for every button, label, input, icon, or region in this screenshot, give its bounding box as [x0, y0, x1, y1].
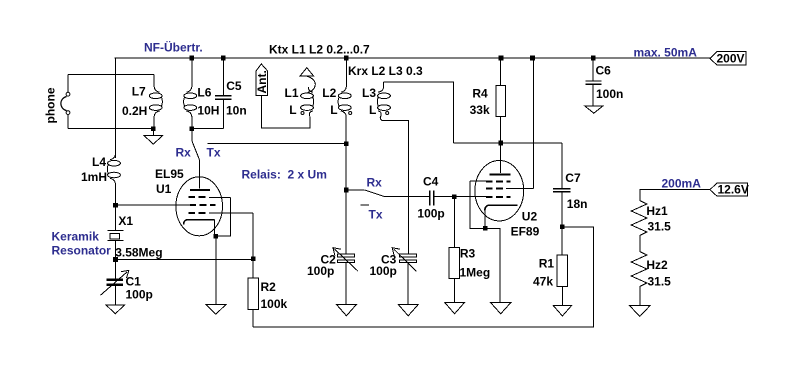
node junction g2 top — [530, 56, 535, 61]
node junction R2 top — [251, 257, 256, 262]
ground under R1 — [553, 306, 571, 317]
wire L3 bottom to C3 — [384, 121, 409, 254]
svg-text:31.5: 31.5 — [648, 274, 672, 288]
svg-text:10H: 10H — [197, 104, 219, 118]
switch relay contact 2 — [346, 190, 429, 205]
node junction L6 bottom — [190, 126, 195, 131]
svg-text:U1: U1 — [156, 182, 172, 196]
node junction L2 top — [344, 56, 349, 61]
svg-text:C4: C4 — [423, 174, 439, 188]
svg-text:200mA: 200mA — [662, 177, 702, 191]
svg-text:EF89: EF89 — [511, 224, 540, 238]
node junction C5 top — [221, 56, 226, 61]
wire Hz2 to ground — [639, 287, 641, 306]
svg-text:L7: L7 — [132, 84, 146, 98]
node junction C6 top — [591, 56, 596, 61]
node junction U2 cathode — [483, 226, 488, 231]
svg-text:L2: L2 — [322, 86, 336, 100]
node junction C7 / R1 — [560, 225, 565, 230]
svg-text:Ktx L1 L2 0.2...0.7: Ktx L1 L2 0.2...0.7 — [269, 43, 370, 57]
svg-text:31.5: 31.5 — [648, 219, 672, 233]
svg-text:1Meg: 1Meg — [460, 265, 491, 279]
wire L3 top to R4 node — [383, 82, 453, 143]
wire U2 cathode lead — [484, 211, 486, 229]
svg-text:L: L — [369, 103, 376, 117]
node junction Tx line meets L2 column — [344, 141, 349, 146]
svg-text:L1: L1 — [285, 86, 299, 100]
svg-text:L6: L6 — [197, 86, 211, 100]
terminal Ant. flag — [255, 64, 269, 96]
terminal 200V tag — [710, 51, 746, 65]
svg-text:10n: 10n — [226, 104, 247, 118]
wire Ant to L1 — [261, 96, 310, 128]
capacitor C4 — [430, 191, 486, 206]
svg-text:U2: U2 — [522, 209, 538, 223]
wire U1 g2 row down to R2 node — [252, 213, 254, 259]
svg-text:0.2H: 0.2H — [122, 104, 147, 118]
svg-text:47k: 47k — [533, 274, 553, 288]
node junction R4 top — [499, 56, 504, 61]
node junction switch2 common — [344, 188, 349, 193]
svg-text:100p: 100p — [307, 264, 334, 278]
svg-text:33k: 33k — [470, 103, 490, 117]
capacitor C1 variable — [101, 259, 129, 304]
wire U2 cathode to ground — [485, 228, 500, 302]
svg-text:NF-Übertr.: NF-Übertr. — [144, 40, 203, 55]
tube U2 EF89 envelope — [475, 161, 524, 221]
crystal X1 ceramic resonator — [108, 205, 124, 259]
ground under U1 cathode — [206, 304, 226, 314]
tube U2 grid row g2 — [486, 187, 533, 189]
svg-text:1mH: 1mH — [81, 170, 107, 184]
wire bottom feedback loop — [253, 227, 594, 327]
svg-text:100n: 100n — [596, 87, 623, 101]
svg-text:Tx: Tx — [207, 145, 221, 159]
wire Hz1 to Hz2 — [639, 236, 641, 252]
svg-text:X1: X1 — [118, 214, 133, 228]
svg-text:Ant.: Ant. — [255, 70, 269, 93]
svg-text:Rx: Rx — [176, 145, 192, 159]
svg-text:L3: L3 — [362, 86, 376, 100]
svg-text:C6: C6 — [596, 63, 612, 77]
wire main B+ rail — [115, 57, 710, 59]
inductor L4 — [107, 154, 120, 205]
svg-text:Krx L2 L3 0.3: Krx L2 L3 0.3 — [348, 64, 423, 78]
wire 12.6V to Hz1 — [640, 190, 710, 201]
ground under R3 — [445, 303, 465, 314]
capacitor C5 — [192, 58, 232, 128]
svg-text:18n: 18n — [567, 197, 588, 211]
tube U2 grid row g3 — [470, 180, 510, 183]
node junction L7 bottom — [151, 126, 156, 131]
svg-text:R1: R1 — [539, 256, 555, 270]
svg-text:phone: phone — [44, 87, 58, 123]
resistor R3 — [449, 197, 460, 303]
svg-text:C7: C7 — [565, 171, 581, 185]
inductor L6 — [184, 58, 197, 129]
svg-text:100p: 100p — [417, 207, 444, 221]
node junction X1 bottom / 3.58Meg line — [113, 257, 118, 262]
inductor L1 — [301, 76, 316, 121]
tube U2 anode — [489, 143, 510, 175]
resistor R2 — [248, 259, 258, 327]
resistor R1 — [557, 227, 568, 306]
svg-text:R3: R3 — [460, 247, 476, 261]
tube U2 cathode — [485, 205, 518, 211]
ground under L7 — [144, 131, 163, 144]
svg-text:Rx: Rx — [367, 175, 383, 189]
svg-text:Resonator: Resonator — [52, 243, 112, 257]
ground under C6 — [585, 106, 604, 113]
capacitor C6 — [586, 58, 602, 106]
inductor L2 — [338, 58, 352, 143]
wire anode node line L3 to C7 — [453, 142, 562, 144]
antenna symbol above L1 — [300, 68, 314, 77]
ground under C1 — [106, 305, 125, 314]
wire U1 cathode to ground — [215, 236, 217, 304]
capacitor C3 variable — [392, 248, 416, 305]
inductor L3 — [377, 82, 390, 121]
node junction L6 top — [190, 56, 195, 61]
node junction C4 / R3 / U2 grid — [452, 194, 457, 199]
svg-text:100p: 100p — [370, 264, 397, 278]
svg-text:R2: R2 — [261, 280, 277, 294]
tube U1 cathode — [184, 220, 215, 237]
svg-text:Keramik: Keramik — [52, 230, 100, 244]
node junction X1 top / grid — [113, 203, 118, 208]
tube U2 grid row g1 — [486, 196, 511, 198]
svg-text:100p: 100p — [126, 288, 153, 302]
tube U1 EL95 envelope — [176, 177, 223, 236]
connector phone — [61, 74, 154, 128]
svg-text:Hz2: Hz2 — [646, 258, 668, 272]
svg-text:C1: C1 — [126, 275, 142, 289]
svg-text:EL95: EL95 — [155, 167, 184, 181]
svg-text:L4: L4 — [92, 155, 106, 169]
ground under C2 — [337, 305, 357, 316]
tube U1 grid row g1 — [116, 204, 216, 206]
svg-text:12.6V: 12.6V — [718, 183, 749, 197]
ground under C3 — [398, 305, 418, 316]
svg-text:L: L — [330, 103, 337, 117]
node junction U2 anode / R4 bottom — [498, 141, 503, 146]
ground under Hz2 — [630, 306, 651, 317]
switch relay contact 1 — [192, 131, 346, 188]
capacitor C2 variable — [333, 143, 358, 304]
svg-text:L: L — [289, 103, 296, 117]
svg-text:R4: R4 — [472, 86, 488, 100]
svg-text:3.58Meg: 3.58Meg — [115, 245, 162, 259]
tube U1 grid row g3 — [189, 196, 231, 198]
terminal 12.6V tag — [710, 183, 749, 197]
tube U1 grid row g2 — [189, 212, 254, 214]
wire g2 to rail — [532, 58, 534, 188]
capacitor C7 — [553, 143, 570, 227]
svg-text:max. 50mA: max. 50mA — [634, 45, 698, 59]
node junction U1 cathode — [214, 234, 219, 239]
svg-text:Tx: Tx — [369, 207, 383, 221]
svg-text:100k: 100k — [261, 297, 288, 311]
tube U1 anode — [190, 159, 210, 191]
ground under U2 cathode — [491, 303, 511, 314]
tube U2 g3 bracket — [470, 181, 483, 228]
wire 3.58Meg line to R2 node — [116, 258, 254, 260]
svg-text:200V: 200V — [717, 51, 745, 65]
wire left column from rail down to L4 — [115, 58, 117, 158]
svg-text:Relais: 2 x Um: Relais: 2 x Um — [242, 168, 327, 182]
tube U1 g3-cathode bracket — [216, 197, 231, 236]
resistor Hz1 zigzag — [631, 201, 647, 236]
resistor Hz2 zigzag — [631, 252, 647, 287]
resistor R4 — [496, 58, 505, 143]
svg-text:Hz1: Hz1 — [646, 204, 668, 218]
svg-text:C5: C5 — [226, 79, 242, 93]
inductor L7 — [149, 74, 162, 128]
